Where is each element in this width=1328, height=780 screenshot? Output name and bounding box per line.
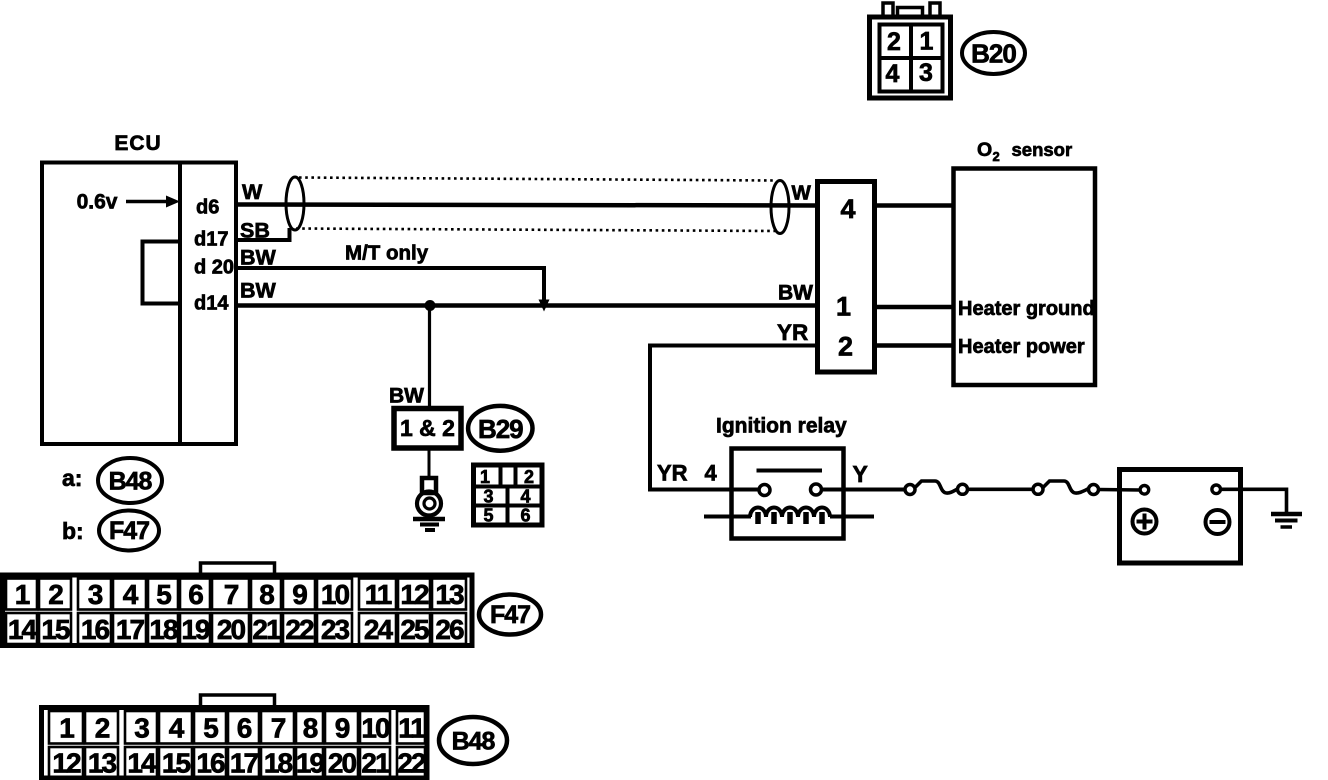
relay contact bar bbox=[757, 469, 823, 473]
svg-text:d14: d14 bbox=[194, 293, 229, 315]
wire battery to ground bbox=[1221, 489, 1287, 512]
svg-text:a:: a: bbox=[62, 465, 82, 491]
svg-text:14: 14 bbox=[127, 748, 157, 779]
connector B48 pin 5 bbox=[194, 711, 226, 744]
connector F47 pin 1 bbox=[6, 579, 37, 611]
connector F47 pin 9 bbox=[283, 579, 315, 611]
svg-text:ECU: ECU bbox=[114, 132, 161, 155]
relay contact left bbox=[759, 485, 770, 496]
connector B48 pin 22 bbox=[397, 747, 426, 779]
connector F47 pin 3 bbox=[78, 579, 111, 611]
connector F47 pin 7 bbox=[212, 579, 249, 611]
svg-text:7: 7 bbox=[224, 579, 239, 610]
fuse 1 right terminal bbox=[958, 484, 968, 494]
connector B48 pin 4 bbox=[159, 711, 192, 744]
svg-text:16: 16 bbox=[196, 748, 225, 779]
O2 sensor box bbox=[954, 169, 1096, 386]
connector B48 pin 12 bbox=[49, 747, 83, 779]
svg-text:4: 4 bbox=[520, 487, 530, 507]
connector B48 pin 21 bbox=[360, 747, 390, 779]
svg-text:5: 5 bbox=[483, 506, 493, 526]
connector B48 pin 8 bbox=[296, 711, 323, 744]
fuse 2 left terminal bbox=[1033, 484, 1043, 494]
svg-text:13: 13 bbox=[435, 579, 464, 610]
connector F47 pin 21 bbox=[251, 613, 281, 645]
shield dotted line top bbox=[299, 178, 773, 181]
svg-text:17: 17 bbox=[116, 614, 145, 645]
battery box bbox=[1120, 470, 1241, 564]
battery minus symbol bbox=[1206, 510, 1230, 534]
svg-text:12: 12 bbox=[400, 579, 429, 610]
svg-text:9: 9 bbox=[292, 579, 307, 610]
svg-text:W: W bbox=[792, 182, 812, 205]
svg-text:20: 20 bbox=[217, 614, 246, 645]
svg-text:BW: BW bbox=[240, 246, 277, 270]
svg-text:YR: YR bbox=[777, 320, 808, 345]
connector B48 pin 17 bbox=[228, 747, 259, 779]
connector F47 pin 24 bbox=[359, 613, 396, 645]
relay coil bbox=[704, 508, 874, 524]
connector B48 pin 11 bbox=[397, 711, 425, 744]
svg-text:3: 3 bbox=[919, 59, 933, 87]
svg-text:10: 10 bbox=[321, 579, 350, 610]
svg-text:B48: B48 bbox=[452, 728, 496, 756]
svg-text:16: 16 bbox=[81, 614, 110, 645]
fuse 2 element bbox=[1043, 481, 1088, 493]
svg-text:9: 9 bbox=[335, 713, 350, 744]
connector F47 pin 12 bbox=[398, 579, 430, 611]
svg-text:11: 11 bbox=[365, 579, 392, 610]
connector F47 pin 2 bbox=[39, 579, 71, 611]
svg-text:2: 2 bbox=[838, 332, 853, 362]
O2 sensor connector box bbox=[818, 182, 875, 373]
connector B48 pin 15 bbox=[159, 747, 192, 779]
svg-text:F47: F47 bbox=[109, 517, 149, 545]
connector F47 pin 10 bbox=[317, 579, 352, 611]
connector F47 pin 23 bbox=[317, 613, 352, 645]
connector F47 pin 16 bbox=[78, 613, 111, 645]
svg-text:2: 2 bbox=[993, 149, 1000, 164]
svg-text:Heater ground: Heater ground bbox=[958, 298, 1095, 320]
svg-text:2: 2 bbox=[524, 467, 534, 487]
svg-text:6: 6 bbox=[188, 579, 203, 610]
svg-text:F47: F47 bbox=[490, 601, 530, 629]
svg-text:B20: B20 bbox=[971, 39, 1016, 69]
svg-text:b:: b: bbox=[62, 518, 84, 544]
connector B48 housing bbox=[42, 708, 428, 779]
svg-text:11: 11 bbox=[398, 713, 425, 744]
svg-text:4: 4 bbox=[886, 60, 900, 88]
svg-text:6: 6 bbox=[237, 713, 252, 744]
svg-text:0.6v: 0.6v bbox=[77, 191, 118, 214]
svg-text:4: 4 bbox=[169, 713, 185, 744]
connector F47 pin 14 bbox=[6, 613, 37, 645]
0.6v arrow bbox=[126, 196, 180, 208]
battery plus symbol bbox=[1133, 510, 1157, 534]
svg-text:1: 1 bbox=[15, 579, 30, 610]
ignition relay box bbox=[732, 449, 844, 539]
wire YR from pin2 to ignition relay bbox=[650, 346, 817, 490]
shield dotted line bottom bbox=[296, 229, 775, 232]
connector B48 pin 9 bbox=[325, 711, 358, 744]
svg-text:3: 3 bbox=[134, 713, 149, 744]
connector F47 pin 13 bbox=[432, 579, 466, 611]
svg-text:O: O bbox=[977, 139, 992, 161]
wire to eyelet terminal bbox=[428, 448, 431, 480]
connector B48 pin 1 bbox=[49, 711, 83, 744]
svg-text:d17: d17 bbox=[194, 229, 228, 251]
ECU box bbox=[42, 163, 236, 445]
connector F47 pin 11 bbox=[359, 579, 396, 611]
O2 sensor label bbox=[977, 139, 1072, 164]
wire SB from d17 bbox=[236, 228, 290, 240]
connector F47 housing bbox=[3, 575, 473, 646]
connector F47 pin 15 bbox=[39, 613, 71, 645]
svg-text:B29: B29 bbox=[478, 414, 523, 444]
fuse 1 left terminal bbox=[905, 485, 915, 495]
svg-text:19: 19 bbox=[181, 614, 210, 645]
svg-text:18: 18 bbox=[264, 748, 293, 779]
label B48 (a) bbox=[98, 458, 162, 503]
battery left terminal bbox=[1140, 486, 1149, 495]
fuse 2 right terminal bbox=[1089, 485, 1099, 495]
svg-text:22: 22 bbox=[285, 614, 314, 645]
svg-text:1: 1 bbox=[920, 28, 934, 56]
svg-text:3: 3 bbox=[88, 579, 103, 610]
svg-text:2: 2 bbox=[95, 713, 110, 744]
svg-text:d 20: d 20 bbox=[194, 257, 234, 279]
arrow junction of M/T wire onto BW wire bbox=[539, 300, 550, 312]
svg-text:BW: BW bbox=[389, 385, 424, 408]
connector F47 pin 18 bbox=[148, 613, 178, 645]
wire pin4 to sensor bbox=[875, 203, 954, 208]
svg-text:4: 4 bbox=[840, 194, 855, 224]
wire BW down to connector B29 bbox=[428, 306, 431, 409]
svg-text:25: 25 bbox=[400, 614, 429, 645]
svg-text:1: 1 bbox=[836, 292, 851, 322]
svg-text:W: W bbox=[242, 180, 263, 204]
connector B48 pin 18 bbox=[261, 747, 294, 779]
svg-text:YR: YR bbox=[657, 461, 688, 486]
connector F47 pin 20 bbox=[212, 613, 249, 645]
svg-text:17: 17 bbox=[230, 748, 259, 779]
connector B29 pins 1 & 2 box bbox=[394, 409, 461, 449]
svg-text:20: 20 bbox=[328, 748, 357, 779]
label B20 bbox=[962, 32, 1025, 74]
wire fuse1 to fuse2 bbox=[968, 487, 1034, 491]
label F47 (b) bbox=[99, 511, 159, 551]
svg-text:BW: BW bbox=[778, 282, 813, 305]
svg-text:3: 3 bbox=[483, 487, 493, 507]
battery right terminal bbox=[1212, 485, 1221, 494]
svg-text:B48: B48 bbox=[109, 468, 153, 496]
svg-text:21: 21 bbox=[361, 748, 390, 779]
ECU internal jumper wire d17-d14 bbox=[143, 242, 181, 304]
svg-text:15: 15 bbox=[162, 748, 191, 779]
svg-text:8: 8 bbox=[259, 579, 274, 610]
svg-text:22: 22 bbox=[397, 748, 426, 779]
connector B48 pin 14 bbox=[125, 747, 157, 779]
connector B48 tab bbox=[201, 695, 275, 708]
svg-text:24: 24 bbox=[364, 614, 394, 645]
connector F47 pin 17 bbox=[113, 613, 146, 645]
connector F47 pin 19 bbox=[180, 613, 210, 645]
wire heater power bbox=[875, 343, 954, 348]
svg-text:2: 2 bbox=[887, 28, 901, 56]
label B29 bbox=[468, 406, 532, 451]
wire W from d6 to O2 connector bbox=[236, 205, 817, 206]
svg-text:1 & 2: 1 & 2 bbox=[400, 415, 455, 441]
wire BW d20 (M/T only branch) bbox=[236, 268, 544, 301]
svg-text:18: 18 bbox=[149, 614, 178, 645]
svg-text:1: 1 bbox=[59, 713, 74, 744]
relay contact right bbox=[811, 484, 822, 495]
svg-text:d6: d6 bbox=[196, 197, 219, 219]
svg-text:13: 13 bbox=[88, 748, 117, 779]
svg-text:14: 14 bbox=[8, 614, 38, 645]
svg-text:Heater power: Heater power bbox=[958, 336, 1085, 358]
connector F47 pin 26 bbox=[432, 613, 466, 645]
svg-text:Y: Y bbox=[853, 461, 868, 487]
connector F47 pin 5 bbox=[148, 579, 178, 611]
svg-text:26: 26 bbox=[435, 614, 464, 645]
svg-text:M/T only: M/T only bbox=[345, 242, 429, 265]
connector B48 pin 6 bbox=[228, 711, 259, 744]
connector B48 pin 10 bbox=[360, 711, 390, 744]
label B48 (connector) bbox=[439, 717, 507, 764]
connector B48 pin 3 bbox=[125, 711, 157, 744]
svg-text:12: 12 bbox=[52, 748, 81, 779]
connector B48 pin 13 bbox=[85, 747, 118, 779]
connector F47 pin 4 bbox=[113, 579, 146, 611]
svg-text:23: 23 bbox=[321, 614, 350, 645]
connector F47 pin 25 bbox=[398, 613, 430, 645]
junction dot on BW wire bbox=[425, 300, 436, 311]
svg-text:10: 10 bbox=[361, 713, 390, 744]
ground symbol right bbox=[1271, 514, 1302, 527]
connector B48 pin 2 bbox=[85, 711, 118, 744]
wire fuse2 to battery bbox=[1099, 488, 1141, 492]
connector F47 pin 6 bbox=[180, 579, 210, 611]
svg-text:21: 21 bbox=[252, 614, 281, 645]
connector F47 tab bbox=[201, 563, 275, 576]
svg-text:6: 6 bbox=[520, 506, 530, 526]
svg-text:4: 4 bbox=[705, 461, 718, 486]
svg-text:15: 15 bbox=[41, 614, 70, 645]
connector F47 pin 8 bbox=[251, 579, 281, 611]
connector B48 pin 19 bbox=[296, 747, 325, 779]
svg-text:5: 5 bbox=[203, 713, 218, 744]
shield ellipse right bbox=[771, 181, 789, 234]
connector F47 pin 22 bbox=[283, 613, 315, 645]
fuse 1 element bbox=[915, 481, 958, 493]
shield ellipse left bbox=[286, 177, 304, 230]
connector B29 pin layout bbox=[474, 465, 543, 525]
wire BW from d14 to O2 connector bbox=[236, 303, 817, 308]
svg-text:8: 8 bbox=[303, 713, 318, 744]
connector B48 pin 20 bbox=[325, 747, 358, 779]
wire heater ground bbox=[875, 305, 954, 310]
label F47 (connector) bbox=[479, 595, 541, 635]
eyelet ground terminal bbox=[417, 478, 441, 516]
svg-text:2: 2 bbox=[48, 579, 63, 610]
ground symbol below eyelet bbox=[413, 519, 445, 530]
svg-text:Ignition relay: Ignition relay bbox=[716, 415, 847, 438]
svg-text:7: 7 bbox=[271, 713, 286, 744]
svg-text:sensor: sensor bbox=[1012, 139, 1073, 160]
svg-text:BW: BW bbox=[240, 279, 277, 303]
svg-text:4: 4 bbox=[123, 579, 139, 610]
svg-text:19: 19 bbox=[296, 748, 325, 779]
svg-text:5: 5 bbox=[156, 579, 171, 610]
svg-text:1: 1 bbox=[480, 467, 490, 487]
connector B48 pin 16 bbox=[194, 747, 226, 779]
connector B48 pin 7 bbox=[261, 711, 294, 744]
wire relay to fuse 1 bbox=[822, 488, 906, 492]
connector B20 housing bbox=[870, 3, 951, 98]
